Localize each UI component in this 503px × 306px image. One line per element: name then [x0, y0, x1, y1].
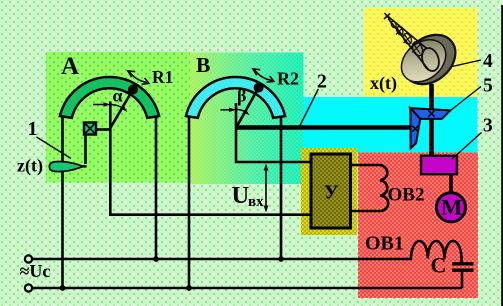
leader line 4 [452, 60, 481, 67]
alpha dimension arrow [93, 104, 108, 106]
khaki amplifier surround [301, 148, 357, 235]
svg-text:1: 1 [28, 118, 38, 140]
wire: upper supply line [32, 258, 412, 261]
feed cone mouth ring [419, 46, 442, 73]
feed cone edges [387, 16, 427, 49]
svg-text:М: М [441, 195, 462, 220]
R2 wiper [236, 88, 259, 128]
junction B right leg / upper supply [278, 256, 284, 262]
R1 rotation arrow [130, 72, 148, 83]
leader line 2 [300, 89, 318, 126]
wire pointer tip to lead [80, 165, 87, 167]
wire: A wiper box connector [96, 128, 111, 131]
svg-text:U: U [232, 182, 250, 209]
bevel gear side piece [410, 108, 420, 148]
beta angle arc arrow [236, 109, 246, 112]
wire: A wiper vertical line down to amplifier [110, 102, 311, 215]
motor shaft [449, 174, 453, 194]
svg-text:5: 5 [483, 76, 493, 97]
z(t) pointer [49, 162, 83, 172]
terminal lower Uc [25, 284, 32, 291]
motor M [436, 193, 465, 222]
thick shaft from R2 to bevel gear [237, 125, 412, 130]
tip cross [385, 13, 391, 20]
svg-text:ОВ2: ОВ2 [388, 185, 425, 206]
amplifier U box [311, 154, 351, 228]
junction A left leg / lower supply [60, 285, 66, 291]
region A green rectangle [46, 52, 190, 183]
svg-text:4: 4 [483, 51, 493, 72]
potentiometer R1 arc [60, 77, 159, 118]
wire: potentiometer A left leg [61, 113, 64, 288]
boom rings [411, 40, 425, 57]
wire: potentiometer A right leg [155, 113, 158, 259]
R1 wiper [110, 90, 133, 129]
OB2 coil [380, 165, 388, 211]
lattice braces [412, 44, 421, 53]
OB1 coil [411, 241, 462, 259]
svg-text:z(t): z(t) [17, 156, 43, 177]
capacitor C plates [452, 262, 474, 265]
terminal upper Uc [25, 255, 32, 262]
OB2 winding wires [350, 164, 380, 167]
svg-text:R1: R1 [152, 67, 173, 87]
R1 wiper contact dot [128, 85, 138, 95]
svg-text:x(t): x(t) [370, 73, 397, 94]
capacitor C vertical leads [460, 257, 463, 264]
red machine region [358, 152, 478, 298]
dish antenna [384, 13, 465, 94]
wire: potentiometer B left leg [188, 110, 191, 288]
alpha angle arc arrow [110, 105, 123, 109]
svg-text:R2: R2 [277, 69, 299, 89]
right edge border line [501, 5, 503, 306]
leader line 5 [451, 87, 482, 111]
potentiometer R2 arc [186, 77, 285, 118]
beta dimension arrow [221, 109, 234, 111]
bevel gear top piece [410, 108, 450, 119]
Uvx arrow [265, 167, 267, 209]
wire: B wiper vertical line down to amplifier [236, 103, 311, 162]
svg-text:≈Uc: ≈Uc [20, 261, 51, 281]
svg-text:А: А [61, 53, 79, 80]
leader line 3 [452, 133, 482, 160]
A wiper terminal box with X [84, 123, 96, 135]
svg-text:α: α [113, 86, 123, 106]
reducer box [421, 156, 457, 174]
wire: lower supply line [32, 287, 462, 290]
junction B left leg / lower supply [186, 285, 192, 291]
antenna mast [429, 84, 434, 156]
svg-text:вх: вх [248, 194, 264, 210]
R2 rotation arrow [255, 70, 273, 81]
leader line 1 [37, 137, 72, 159]
svg-text:С: С [431, 253, 447, 278]
svg-text:У: У [324, 182, 339, 204]
cyan shaft band [304, 97, 478, 152]
yellow antenna region [364, 8, 478, 97]
dish face [393, 31, 454, 90]
wire: z(t) input lead [84, 134, 87, 164]
svg-text:ОВ1: ОВ1 [365, 233, 404, 255]
svg-text:3: 3 [483, 116, 493, 137]
R2 wiper contact dot [254, 83, 264, 93]
dish outer rim [394, 25, 465, 95]
svg-text:β: β [237, 86, 246, 106]
junction A right leg / upper supply [153, 256, 159, 262]
svg-text:В: В [196, 53, 210, 77]
region B gradient rectangle [190, 53, 304, 185]
wire: potentiometer B right leg [280, 110, 283, 259]
